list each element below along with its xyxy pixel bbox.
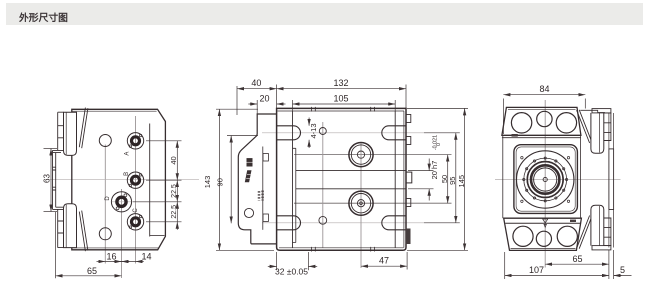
flange strip upper bbox=[58, 112, 64, 150]
shaft center hole bbox=[543, 177, 547, 181]
dim 143 extension lines bbox=[216, 108, 258, 110]
dim 63 line bbox=[50, 149, 52, 212]
dim 32 outside arrows bbox=[268, 265, 277, 267]
side outline right bbox=[580, 135, 582, 218]
flange top edge behind bbox=[580, 110, 605, 112]
main square inner line bbox=[516, 147, 575, 211]
ear slot bottom inner bbox=[598, 206, 600, 246]
shaft ring r18 bbox=[527, 161, 563, 197]
svg-text:A: A bbox=[125, 152, 131, 156]
svg-text:107: 107 bbox=[529, 265, 544, 275]
dim 47 extension line bbox=[406, 252, 408, 270]
boss lower bbox=[349, 191, 373, 215]
dim 145 extension lines bbox=[407, 107, 468, 109]
bottom block top double line bbox=[505, 222, 580, 224]
ear slot top inner line bbox=[65, 112, 67, 154]
body top inner line bbox=[72, 110, 157, 112]
right dark tab bbox=[406, 229, 411, 245]
dim 65/107 extension lines bbox=[504, 252, 506, 279]
boss centerline vertical bbox=[360, 142, 362, 268]
svg-text:40: 40 bbox=[169, 156, 178, 164]
header bar bbox=[6, 3, 643, 25]
cover plate edge bbox=[262, 147, 264, 230]
svg-text:143: 143 bbox=[203, 176, 212, 189]
ear diagonals top right bbox=[577, 110, 592, 143]
inner wall right bbox=[394, 111, 396, 248]
centerline vertical bbox=[544, 100, 546, 268]
svg-text:95: 95 bbox=[448, 177, 457, 185]
dim 84 extension lines bbox=[502, 99, 504, 135]
dim 145 line bbox=[464, 108, 466, 250]
hole 4-13 upper bbox=[319, 128, 326, 135]
svg-text:4-13: 4-13 bbox=[309, 123, 318, 138]
dim 16/14 line with outside arrows bbox=[97, 261, 106, 263]
top block bottom double line bbox=[502, 137, 581, 139]
svg-text:32 ±0.05: 32 ±0.05 bbox=[275, 267, 308, 277]
nameplate logo slit upper bbox=[247, 161, 253, 163]
dim 5 outside arrow and tail bbox=[614, 275, 622, 277]
ear chamfer bottom diagonals bbox=[79, 211, 88, 252]
dim 95 extension lines bbox=[424, 132, 460, 134]
port C bbox=[127, 214, 143, 230]
small hole upper bbox=[99, 135, 111, 147]
boss upper bbox=[349, 143, 373, 167]
nameplate logo block lower bbox=[245, 170, 252, 182]
body right inner line bbox=[403, 111, 405, 248]
body bottom inner line bbox=[72, 247, 159, 249]
nameplate logo slits lower bbox=[246, 175, 251, 179]
ear slot top bbox=[64, 112, 77, 155]
bottom port middle bbox=[536, 231, 551, 246]
svg-text:D: D bbox=[105, 196, 111, 201]
chamber wall bbox=[293, 148, 296, 242]
small hole lower bbox=[99, 228, 111, 240]
centerline horizontal bbox=[44, 178, 199, 180]
shaft outer circle bbox=[517, 151, 574, 208]
shaft bolt ring bbox=[524, 158, 567, 201]
boss centerline upper bbox=[294, 154, 452, 156]
dim 107 line bbox=[505, 275, 609, 277]
svg-text:84: 84 bbox=[539, 84, 549, 94]
dim 40 line bbox=[237, 88, 277, 90]
dim 90 line bbox=[230, 136, 232, 224]
flange plate edge-on bbox=[609, 149, 614, 210]
cap foot line bbox=[150, 235, 165, 237]
dim 105 line bbox=[293, 103, 396, 105]
shaft chamber lines bbox=[296, 171, 406, 189]
right tab 2 bbox=[406, 137, 411, 145]
cap joint line bbox=[149, 124, 151, 237]
body outline bbox=[72, 109, 166, 250]
ear slot bottom inner line bbox=[65, 205, 67, 248]
dim 20/105 extension lines bbox=[256, 100, 258, 115]
rear cover outline bbox=[238, 114, 276, 244]
inner wall left bbox=[292, 111, 294, 248]
centerline horizontal bbox=[495, 179, 621, 181]
svg-text:C: C bbox=[133, 208, 139, 213]
svg-text:B: B bbox=[124, 172, 130, 176]
dim 40/22.5 extension lines bbox=[146, 140, 182, 142]
svg-text:105: 105 bbox=[333, 94, 348, 104]
flange cap bottom bbox=[592, 246, 611, 250]
svg-text:14: 14 bbox=[141, 252, 151, 262]
dim 90 extension line bbox=[227, 135, 258, 137]
dim 40 line bbox=[176, 141, 178, 180]
svg-text:16: 16 bbox=[106, 252, 116, 262]
side outline left bbox=[502, 135, 504, 218]
dim 32 extension lines bbox=[276, 252, 278, 270]
dim 84 line bbox=[503, 94, 585, 96]
hole 4-13 lower bbox=[319, 216, 327, 224]
svg-text:132: 132 bbox=[333, 78, 348, 88]
bottom block bbox=[504, 218, 582, 250]
port A bbox=[127, 133, 143, 149]
cover bolt upper bbox=[263, 154, 268, 162]
centerline small holes vertical bbox=[104, 145, 106, 264]
cover small hole bbox=[244, 208, 253, 217]
flange strip lower bbox=[58, 209, 64, 247]
dim 65 line bbox=[545, 263, 609, 265]
top block inner top line bbox=[508, 108, 576, 110]
centerline port D horizontal bbox=[112, 201, 163, 203]
top port middle bbox=[537, 111, 552, 126]
dim 40/132 extension lines bbox=[236, 86, 238, 115]
body outline bbox=[277, 108, 406, 250]
svg-text:90: 90 bbox=[215, 178, 224, 186]
mounting slot lower-left bbox=[277, 216, 301, 230]
bottom edge ticks bbox=[311, 247, 374, 252]
flange strip middle bbox=[53, 150, 64, 209]
svg-text:5: 5 bbox=[620, 265, 625, 275]
top port right bbox=[556, 113, 576, 133]
svg-text:145: 145 bbox=[457, 175, 466, 188]
boss centerline lower bbox=[294, 202, 452, 204]
dim 20h7 outside arrows bbox=[428, 159, 430, 171]
body top inner line bbox=[278, 110, 405, 112]
dim 20h7 extension lines bbox=[408, 170, 434, 172]
flange bolt strip top bbox=[604, 113, 611, 141]
mounting slot upper-right bbox=[382, 126, 406, 140]
dim 4-13 arrows bbox=[308, 118, 310, 126]
flange plate upper part bbox=[609, 113, 614, 149]
shaft ring outer dark bbox=[527, 162, 563, 198]
mounting slot lower-right bbox=[382, 216, 406, 230]
shaft bolt dots bbox=[523, 157, 568, 202]
dim 143 line bbox=[218, 109, 220, 250]
dim 132 line bbox=[277, 88, 406, 90]
top edge ticks bbox=[311, 107, 374, 112]
ear slot right bottom bbox=[591, 205, 604, 245]
centerline D vertical bbox=[121, 189, 123, 278]
hole centerline vertical bbox=[322, 122, 324, 248]
dim 65 extension line bbox=[55, 212, 57, 278]
flange cap top bbox=[592, 109, 611, 113]
dim 63 extension lines bbox=[44, 148, 58, 150]
ear chamfer top diagonals bbox=[79, 108, 88, 149]
shaft spline band bbox=[531, 165, 559, 193]
svg-text:65: 65 bbox=[572, 254, 582, 264]
dim 20 outside arrows bbox=[248, 103, 257, 105]
right tab 3 bbox=[406, 199, 411, 207]
slot centerline lower bbox=[262, 222, 424, 224]
top block small step bbox=[512, 134, 518, 137]
nameplate logo block upper bbox=[247, 158, 253, 166]
bottom port left bbox=[513, 226, 533, 246]
bottom small step bbox=[570, 220, 576, 222]
bottom port right bbox=[557, 226, 577, 246]
dim 95 line bbox=[455, 133, 457, 223]
body bottom inner line bbox=[279, 247, 404, 249]
flange bolt strip bottom bbox=[604, 218, 611, 246]
svg-text:22.5: 22.5 bbox=[171, 205, 178, 219]
ear slot right top bbox=[591, 113, 604, 153]
svg-text:47: 47 bbox=[379, 255, 389, 265]
svg-text:20: 20 bbox=[259, 94, 269, 104]
shaft stub bbox=[406, 172, 412, 183]
ear slot top inner bbox=[598, 113, 600, 153]
cover bolt lower bbox=[263, 214, 268, 222]
main square block bbox=[514, 145, 578, 214]
flange plate lower part bbox=[609, 210, 614, 248]
dim 22.5 line upper bbox=[176, 180, 178, 202]
slot centerline upper bbox=[262, 132, 424, 134]
drain marker bbox=[543, 219, 548, 227]
bottom block bottom inner line bbox=[511, 248, 576, 250]
svg-text:20 h7: 20 h7 bbox=[430, 161, 439, 180]
dim 50 line bbox=[447, 155, 449, 204]
svg-text:-0.021: -0.021 bbox=[433, 135, 439, 150]
svg-text:22.5: 22.5 bbox=[171, 184, 178, 198]
centerline ABC vertical bbox=[135, 116, 137, 264]
shaft inner circle bbox=[534, 168, 557, 191]
ear diagonals bottom right bbox=[577, 216, 592, 249]
port B bbox=[127, 172, 143, 188]
ear slot bottom bbox=[64, 204, 77, 248]
svg-text:40: 40 bbox=[251, 78, 261, 88]
dim 47 line bbox=[361, 265, 407, 267]
svg-text:63: 63 bbox=[42, 174, 51, 183]
corner bolt dots bbox=[521, 157, 570, 203]
nameplate text marks bbox=[258, 191, 263, 201]
svg-text:65: 65 bbox=[87, 266, 97, 276]
mounting slot upper-left bbox=[277, 126, 301, 140]
right tab 1 bbox=[406, 115, 411, 123]
dim 65 line bbox=[56, 275, 122, 277]
top port left bbox=[511, 113, 531, 133]
port D flanged bbox=[111, 192, 131, 212]
dim 22.5 line lower bbox=[176, 202, 178, 222]
top block bbox=[502, 107, 581, 135]
